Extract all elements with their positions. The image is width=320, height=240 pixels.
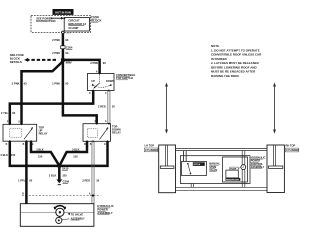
svg-text:150: 150 <box>73 154 78 158</box>
svg-text:G306: G306 <box>63 180 70 184</box>
svg-text:30: 30 <box>112 104 115 108</box>
svg-text:2 YEL: 2 YEL <box>1 111 9 115</box>
svg-text:20 AMP: 20 AMP <box>68 26 78 30</box>
svg-text:A: A <box>96 70 98 73</box>
svg-text:CYLINDER: CYLINDER <box>145 148 158 152</box>
svg-text:TO VALVE: TO VALVE <box>71 213 84 217</box>
svg-text:CYLINDER: CYLINDER <box>286 148 299 152</box>
svg-text:2 BLK: 2 BLK <box>49 173 57 177</box>
svg-text:C203: C203 <box>66 32 72 34</box>
svg-text:93: 93 <box>65 81 68 85</box>
svg-text:3 BLK: 3 BLK <box>36 147 44 151</box>
svg-text:30: 30 <box>96 178 99 182</box>
svg-text:93: 93 <box>65 51 68 55</box>
svg-text:RAISING THE ROOF: RAISING THE ROOF <box>211 74 239 78</box>
svg-text:E: E <box>104 144 106 146</box>
svg-text:2 PNK: 2 PNK <box>52 51 60 55</box>
svg-text:B: B <box>23 144 25 146</box>
svg-text:3 BLK: 3 BLK <box>72 147 80 151</box>
svg-text:E: E <box>89 93 91 95</box>
svg-text:RELAY: RELAY <box>112 130 121 134</box>
svg-text:HOT IN RUN: HOT IN RUN <box>55 10 71 14</box>
svg-text:RH TOP: RH TOP <box>286 144 296 148</box>
svg-text:82: 82 <box>12 111 15 115</box>
svg-text:F: F <box>105 93 107 95</box>
svg-text:2 PNK: 2 PNK <box>52 38 60 42</box>
svg-text:65: 65 <box>29 178 32 182</box>
svg-text:E: E <box>32 144 34 146</box>
svg-text:B: B <box>22 194 24 196</box>
svg-text:S410: S410 <box>62 167 69 171</box>
svg-text:150: 150 <box>38 154 43 158</box>
svg-text:150: 150 <box>62 173 67 177</box>
svg-text:1 PNK: 1 PNK <box>52 81 60 85</box>
svg-text:ST11A: ST11A <box>193 163 200 166</box>
svg-text:93: 93 <box>103 61 106 65</box>
svg-text:DETAILS: DETAILS <box>10 60 22 64</box>
svg-text:RELAY: RELAY <box>39 131 48 135</box>
svg-text:RESERVOIR: RESERVOIR <box>226 179 239 181</box>
svg-text:A: A <box>89 193 91 196</box>
svg-text:ASSEMBLY: ASSEMBLY <box>97 211 112 215</box>
svg-text:LH TOP: LH TOP <box>145 144 155 148</box>
svg-text:3 PNK: 3 PNK <box>12 81 20 85</box>
svg-text:PUMP: PUMP <box>230 168 237 170</box>
svg-text:93: 93 <box>24 81 27 85</box>
svg-text:2 RED: 2 RED <box>98 104 106 108</box>
svg-text:93: 93 <box>65 38 68 42</box>
svg-text:150: 150 <box>11 153 16 157</box>
svg-text:D: D <box>84 144 86 146</box>
svg-text:A: A <box>105 120 107 123</box>
svg-text:A: A <box>18 121 20 124</box>
svg-text:C204: C204 <box>66 46 73 50</box>
svg-text:D: D <box>6 144 8 146</box>
svg-text:2 RED: 2 RED <box>82 178 90 182</box>
svg-text:2 PNK: 2 PNK <box>90 61 98 65</box>
svg-text:1 PPL: 1 PPL <box>18 178 26 182</box>
svg-text:B: B <box>90 144 92 146</box>
svg-text:2 BLK: 2 BLK <box>1 153 9 157</box>
svg-text:DISTRIBUTION: DISTRIBUTION <box>36 19 55 23</box>
svg-text:DOWN: DOWN <box>106 79 114 83</box>
svg-text:ASSEMBLY: ASSEMBLY <box>71 216 85 220</box>
svg-text:UP: UP <box>91 79 95 83</box>
